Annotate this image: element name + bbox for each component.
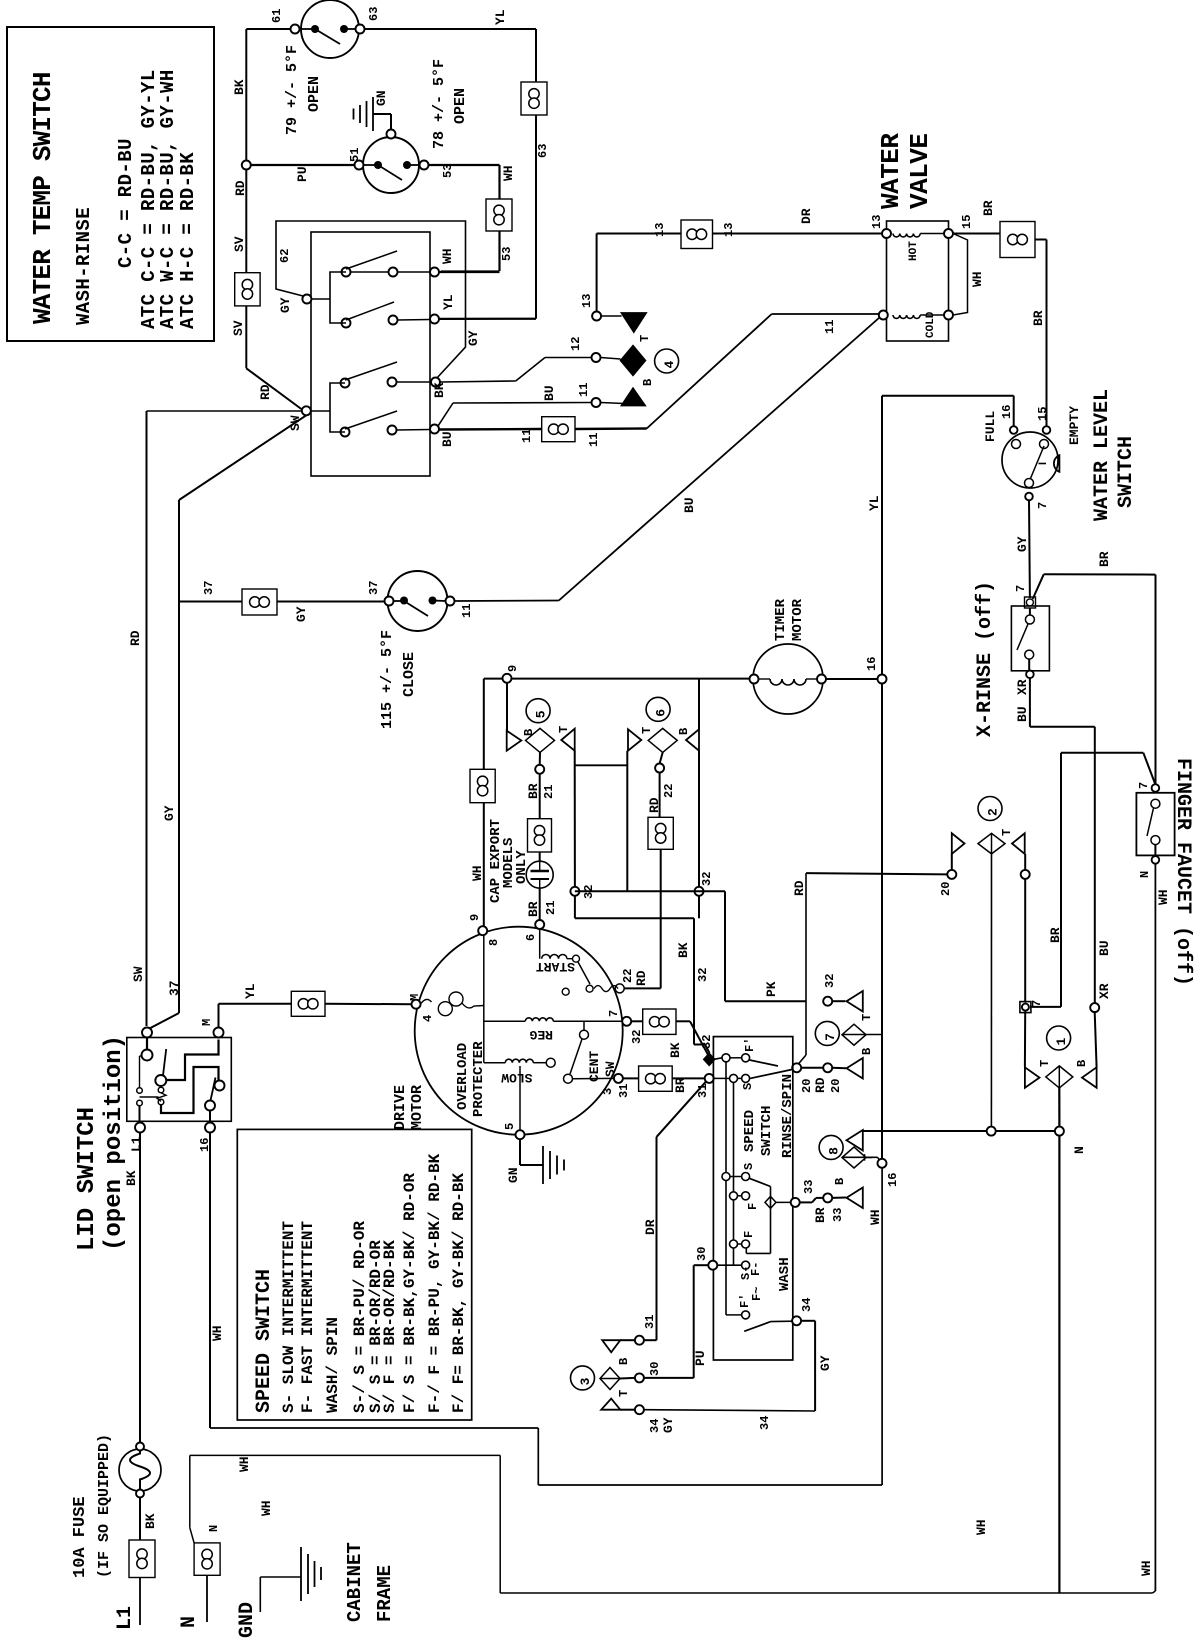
svg-text:BR: BR bbox=[1097, 551, 1112, 567]
wire 12 from BK terminal bbox=[440, 381, 516, 382]
svg-text:COLD: COLD bbox=[925, 311, 937, 338]
svg-text:X-RINSE (off): X-RINSE (off) bbox=[974, 581, 997, 737]
X-RINSE contacts and blade bbox=[1029, 608, 1031, 615]
terminal 33 on box edge bbox=[791, 1198, 800, 1207]
ground GND symbol bbox=[259, 1577, 261, 1612]
N connector bbox=[194, 1543, 220, 1575]
svg-text:BR: BR bbox=[1048, 927, 1063, 943]
terminal 30 stack3 bbox=[635, 1373, 644, 1382]
svg-text:GY: GY bbox=[466, 330, 481, 346]
finger faucet terminal 7 bbox=[1152, 784, 1160, 792]
wire BR from X-RINSE 7 up right bbox=[1033, 574, 1044, 599]
svg-text:37: 37 bbox=[367, 581, 381, 595]
connector on YL right bus bbox=[521, 82, 547, 115]
stack3 bottom triangle bbox=[601, 1399, 620, 1410]
water valve box bbox=[887, 221, 949, 341]
svg-text:RD: RD bbox=[634, 970, 649, 986]
svg-text:T: T bbox=[1038, 1060, 1052, 1067]
wire 34 up to terminal bbox=[814, 1321, 816, 1411]
svg-text:BK: BK bbox=[232, 79, 247, 95]
wire 30 stack3 to speed switch bbox=[620, 1377, 635, 1380]
terminal 15 bbox=[1043, 426, 1051, 434]
svg-text:B: B bbox=[617, 1358, 631, 1365]
wire RD20 tee junction bbox=[823, 997, 832, 1006]
wire stack8 diamond to YL bus junction bbox=[842, 1156, 878, 1158]
svg-text:BU: BU bbox=[1097, 940, 1112, 956]
wire 62 GY outer path bbox=[276, 221, 466, 379]
pole2 terminal YL bbox=[430, 315, 439, 324]
svg-text:WATER LEVEL: WATER LEVEL bbox=[1091, 389, 1114, 521]
wire 32 connector to speed switch bbox=[676, 1020, 690, 1022]
svg-text:WATER TEMP SWITCH: WATER TEMP SWITCH bbox=[28, 72, 58, 324]
water temp switch inner box bbox=[311, 232, 430, 476]
svg-text:RD: RD bbox=[813, 1077, 828, 1093]
svg-text:GND: GND bbox=[236, 1602, 259, 1638]
wire 20 RD to stack7 bottom triangle bbox=[801, 1067, 823, 1069]
terminal 13 bbox=[592, 312, 601, 321]
N wire routing bbox=[190, 1528, 194, 1543]
wire 34 from stack3 to speed switch bbox=[620, 1409, 635, 1411]
pole1 terminal WH bbox=[430, 268, 439, 277]
svg-text:37: 37 bbox=[202, 581, 216, 595]
10A fuse circle bbox=[119, 1449, 161, 1491]
svg-text:SW: SW bbox=[131, 966, 146, 982]
stack4 triangle filled bottom bbox=[622, 388, 645, 405]
wire 12 stub to diamond bbox=[601, 358, 621, 360]
lid link small chain bbox=[140, 1096, 159, 1098]
svg-text:F/ S = BR-BK,GY-BK/ RD-OR: F/ S = BR-BK,GY-BK/ RD-OR bbox=[401, 1173, 419, 1413]
svg-text:F-: F- bbox=[749, 1262, 763, 1276]
svg-text:F: F bbox=[746, 1203, 760, 1210]
svg-text:79 +/- 5°F: 79 +/- 5°F bbox=[284, 45, 301, 135]
X-RINSE box bbox=[1011, 606, 1049, 671]
terminal 7 junction square bbox=[1020, 1002, 1031, 1013]
connector on 21 wire bbox=[528, 819, 552, 852]
wire BR vertical down bbox=[1060, 753, 1062, 1007]
svg-text:SV: SV bbox=[231, 320, 246, 336]
wire DR vertical bbox=[656, 1137, 658, 1340]
wire SV bus to lower common diagonal bbox=[245, 306, 247, 368]
svg-text:WASH/ SPIN: WASH/ SPIN bbox=[324, 1317, 342, 1413]
svg-text:13: 13 bbox=[653, 223, 667, 237]
svg-text:ONLY: ONLY bbox=[514, 850, 530, 884]
wire 22 connector down into motor bbox=[660, 849, 662, 988]
wire to stack7 top triangle bbox=[832, 1000, 845, 1002]
svg-text:11: 11 bbox=[520, 429, 534, 443]
svg-text:6: 6 bbox=[524, 934, 538, 941]
svg-text:T: T bbox=[638, 335, 652, 342]
svg-text:4: 4 bbox=[662, 361, 677, 369]
wire YL connector to motor M bbox=[325, 1003, 412, 1005]
svg-text:15: 15 bbox=[1036, 407, 1050, 421]
svg-text:30: 30 bbox=[648, 1362, 662, 1376]
svg-text:F-/ F = BR-PU, GY-BK/ RD-BK: F-/ F = BR-PU, GY-BK/ RD-BK bbox=[426, 1153, 444, 1413]
svg-text:34: 34 bbox=[648, 1419, 662, 1433]
wire WH from faucet down bbox=[1154, 864, 1156, 1591]
row S rinse bbox=[730, 1074, 738, 1082]
stack6 diamond bbox=[648, 728, 677, 752]
svg-text:N: N bbox=[178, 1616, 201, 1628]
wire cap to motor terminal 6 bbox=[539, 888, 541, 920]
svg-text:B: B bbox=[860, 1048, 874, 1055]
svg-text:T: T bbox=[640, 727, 654, 734]
svg-text:33: 33 bbox=[831, 1208, 845, 1222]
stack4 triangle T filled bbox=[622, 313, 646, 332]
svg-text:PROTECTER: PROTECTER bbox=[471, 1041, 487, 1117]
wire GY 7 down to X-RINSE bbox=[1028, 501, 1031, 599]
svg-text:GY: GY bbox=[162, 805, 177, 821]
wire stack6 right triangle down 32 bbox=[698, 751, 700, 887]
wire DR diagonal from 31 junction bbox=[657, 1082, 707, 1137]
svg-text:61: 61 bbox=[270, 9, 284, 23]
valve COLD coil bbox=[893, 315, 920, 318]
svg-text:30: 30 bbox=[695, 1247, 709, 1261]
svg-text:F/ F= BR-BK, GY-BK/ RD-BK: F/ F= BR-BK, GY-BK/ RD-BK bbox=[450, 1173, 468, 1413]
wire motor7 to connector bbox=[631, 1020, 643, 1022]
stack6 right triangle bbox=[686, 729, 699, 750]
inner bus left bbox=[725, 1058, 727, 1315]
lid center contact circle bbox=[155, 1075, 166, 1086]
svg-text:REG: REG bbox=[529, 1027, 553, 1042]
svg-text:XR: XR bbox=[1015, 679, 1030, 695]
wire 16 WH down bbox=[209, 1133, 211, 1429]
svg-text:31: 31 bbox=[643, 1315, 657, 1329]
svg-text:7: 7 bbox=[1036, 502, 1050, 509]
svg-text:15: 15 bbox=[960, 215, 974, 229]
wire N thick from stack1 diamond down bbox=[1058, 1088, 1060, 1127]
wire XR down to stack1 right triangle bbox=[1095, 1012, 1097, 1067]
pole2 YL: contacts and blade bbox=[342, 319, 351, 328]
pole4 terminal BU bbox=[430, 425, 439, 434]
svg-text:CLOSE: CLOSE bbox=[401, 652, 418, 697]
wire BU from X-RINSE down right bbox=[1029, 678, 1031, 727]
svg-text:WH: WH bbox=[974, 1519, 989, 1535]
wire 16 up and left bbox=[1013, 396, 1015, 426]
svg-text:M: M bbox=[200, 1019, 214, 1026]
svg-text:PU: PU bbox=[295, 166, 310, 182]
wire N to stack8 top triangle bbox=[863, 1130, 1055, 1132]
wire BK from 61 to left bus bbox=[246, 28, 290, 30]
svg-text:YL: YL bbox=[493, 9, 508, 25]
stack7 diamond bbox=[842, 1024, 866, 1045]
circled 4 bbox=[655, 349, 679, 373]
svg-text:RINSE/SPIN: RINSE/SPIN bbox=[780, 1074, 796, 1158]
svg-text:7: 7 bbox=[1137, 782, 1151, 789]
pressure dome bbox=[1054, 455, 1060, 472]
circled 5 bbox=[526, 699, 550, 723]
svg-text:8: 8 bbox=[487, 939, 501, 946]
svg-text:WH: WH bbox=[210, 1325, 225, 1341]
wire 31 junction into box bbox=[714, 1077, 730, 1079]
svg-text:B: B bbox=[833, 1178, 847, 1185]
connector on 22 wire bbox=[648, 817, 673, 849]
lid pole2 contact bbox=[215, 1081, 225, 1091]
motor SLOW branch bbox=[484, 1062, 506, 1064]
svg-text:WH: WH bbox=[868, 1209, 883, 1225]
svg-text:11: 11 bbox=[460, 604, 474, 618]
connector on wire 13 bbox=[681, 220, 713, 249]
svg-text:115 +/- 5°F: 115 +/- 5°F bbox=[379, 630, 396, 729]
junction 16 circle bbox=[878, 1159, 887, 1168]
svg-text:WASH: WASH bbox=[777, 1257, 793, 1291]
motor ground GN bbox=[519, 1139, 521, 1165]
stack8 top triangle bbox=[847, 1130, 863, 1151]
svg-text:20: 20 bbox=[939, 882, 953, 896]
svg-text:EMPTY: EMPTY bbox=[1067, 406, 1082, 445]
stack2 right triangle bbox=[1012, 833, 1025, 854]
svg-text:F: F bbox=[742, 1231, 756, 1238]
START blade bbox=[578, 962, 590, 984]
stack7 bottom triangle bbox=[847, 1058, 863, 1079]
svg-text:12: 12 bbox=[569, 337, 583, 351]
svg-text:33: 33 bbox=[802, 1180, 816, 1194]
junction 31 at speed switch bbox=[705, 1074, 714, 1083]
finger faucet box bbox=[1136, 793, 1174, 856]
svg-text:BR: BR bbox=[526, 901, 541, 917]
wire 7 junction down to stack1 left triangle bbox=[1024, 1011, 1026, 1067]
valve COLD terminal right bbox=[944, 311, 953, 320]
lid switch terminal SW 37 bbox=[142, 1028, 152, 1038]
row S wash bbox=[722, 1173, 730, 1181]
row F prime F~ wash bottom bbox=[742, 1311, 750, 1319]
wire WH faucet corner bbox=[1153, 1591, 1156, 1593]
junction 9 bbox=[503, 674, 512, 683]
svg-text:S: S bbox=[742, 1163, 756, 1170]
svg-text:5: 5 bbox=[503, 1123, 517, 1130]
circled 2 bbox=[978, 797, 1002, 821]
svg-text:13: 13 bbox=[722, 223, 736, 237]
wire YL from 63 to right bus bbox=[365, 28, 537, 30]
water level switch blade bbox=[1029, 446, 1044, 482]
svg-text:B: B bbox=[1075, 1060, 1089, 1067]
svg-text:PU: PU bbox=[693, 1350, 708, 1366]
row F wash bbox=[730, 1192, 738, 1200]
svg-text:DRIVE: DRIVE bbox=[392, 1085, 409, 1130]
svg-text:31: 31 bbox=[617, 1084, 631, 1098]
svg-text:BK: BK bbox=[676, 942, 691, 958]
svg-text:T: T bbox=[1000, 829, 1014, 836]
svg-text:78 +/- 5°F: 78 +/- 5°F bbox=[431, 59, 448, 149]
wire WH terminal to 53 bbox=[439, 271, 500, 273]
svg-text:RD: RD bbox=[128, 630, 143, 646]
svg-text:M: M bbox=[408, 994, 422, 1001]
svg-text:B: B bbox=[677, 728, 691, 735]
svg-text:22: 22 bbox=[621, 969, 635, 983]
svg-text:63: 63 bbox=[536, 144, 550, 158]
wire RD bus down from 51 junction bbox=[245, 170, 247, 273]
svg-text:8: 8 bbox=[827, 1147, 842, 1155]
svg-text:ATC H-C = RD-BK: ATC H-C = RD-BK bbox=[177, 152, 199, 329]
svg-text:F- FAST INTERMITTENT: F- FAST INTERMITTENT bbox=[299, 1221, 317, 1413]
svg-text:10A FUSE: 10A FUSE bbox=[71, 1496, 90, 1578]
svg-text:WASH-RINSE: WASH-RINSE bbox=[73, 207, 95, 325]
circled 1 bbox=[1047, 1026, 1071, 1050]
wire RD down left side to lid switch bbox=[146, 411, 148, 1026]
svg-text:21: 21 bbox=[542, 785, 556, 799]
start switch contacts bbox=[586, 985, 593, 992]
svg-text:GY: GY bbox=[1015, 536, 1030, 552]
svg-text:5: 5 bbox=[534, 710, 549, 718]
svg-text:OPEN: OPEN bbox=[306, 76, 323, 112]
capacitor circle CAP bbox=[526, 861, 553, 888]
motor internal vertical bus bbox=[483, 935, 485, 1062]
svg-text:BU: BU bbox=[440, 431, 455, 447]
junction diamond 32 at speed switch bbox=[704, 1053, 715, 1065]
svg-text:32: 32 bbox=[700, 1035, 714, 1049]
svg-text:YL: YL bbox=[867, 495, 882, 511]
row F wash2 bbox=[730, 1240, 738, 1248]
svg-text:WH: WH bbox=[237, 1456, 252, 1472]
svg-text:CENT: CENT bbox=[587, 1051, 602, 1082]
inner bus right bbox=[733, 1078, 735, 1265]
wash common diamond 33 bbox=[765, 1196, 776, 1208]
wire 9 horizontal bbox=[484, 678, 750, 680]
lid switch bottom terminal L1 bbox=[135, 1123, 145, 1133]
wire 32 BK vertical from above bbox=[698, 896, 700, 919]
svg-text:11: 11 bbox=[587, 433, 601, 447]
svg-text:HOT: HOT bbox=[908, 241, 920, 261]
wire stack6 diamond down 22 RD bbox=[660, 752, 663, 763]
ground GN thermostat bbox=[372, 97, 374, 131]
motor terminal 6 and cap wire bbox=[535, 920, 544, 929]
svg-text:GN: GN bbox=[506, 1167, 521, 1183]
svg-text:BR: BR bbox=[813, 1207, 828, 1223]
svg-text:YL: YL bbox=[243, 983, 258, 999]
svg-text:T: T bbox=[617, 1390, 631, 1397]
wire stack6 left triangle down bbox=[626, 751, 628, 892]
svg-text:BK: BK bbox=[143, 1513, 158, 1529]
svg-text:MOTOR: MOTOR bbox=[409, 1085, 426, 1130]
svg-text:2: 2 bbox=[986, 808, 1001, 816]
svg-text:SV: SV bbox=[232, 236, 247, 252]
wash common bottom hook bbox=[746, 1252, 770, 1254]
wire 11 connector to diagonal bbox=[575, 427, 647, 430]
lid thick path M to center bbox=[167, 1040, 219, 1081]
svg-text:22: 22 bbox=[662, 784, 676, 798]
timer motor terminals bbox=[750, 675, 759, 684]
wire 9 down to stack5 left triangle bbox=[506, 683, 508, 731]
stack7 top triangle bbox=[847, 991, 863, 1012]
svg-text:GY: GY bbox=[818, 1355, 833, 1371]
stack5 right triangle bbox=[561, 729, 574, 751]
terminal 51 bbox=[355, 161, 364, 170]
lid center small contacts bbox=[158, 1087, 164, 1093]
svg-text:BR: BR bbox=[981, 200, 996, 216]
wire RD left from lower common bbox=[147, 410, 302, 412]
svg-text:7: 7 bbox=[1030, 1000, 1044, 1007]
timer motor coil bbox=[770, 679, 806, 685]
row F prime rinse bbox=[715, 1058, 723, 1059]
wire stack5 right triangle down 32 bbox=[574, 751, 576, 887]
wire BR bottom jog to 7 junction bbox=[1030, 1006, 1061, 1008]
wire 37 diagonal into lid switch bbox=[149, 1013, 180, 1029]
thermostat 78F OPEN bbox=[363, 137, 419, 193]
wire 37 horizontal to thermostat 115 bbox=[179, 601, 242, 603]
svg-text:32: 32 bbox=[696, 968, 710, 982]
terminal 37 left bbox=[385, 597, 394, 606]
YL bus vertical bbox=[881, 396, 883, 675]
svg-text:SWITCH: SWITCH bbox=[759, 1106, 775, 1156]
wire N end bbox=[206, 1575, 208, 1622]
speed switch box bbox=[713, 1037, 792, 1360]
terminal 31 stack3 bbox=[635, 1336, 644, 1345]
tee down to stack6 right triangle bbox=[698, 679, 700, 730]
stack5 left triangle bbox=[507, 731, 522, 751]
faucet bottom terminal N bbox=[1152, 856, 1160, 864]
svg-text:GY: GY bbox=[278, 297, 293, 313]
svg-text:S: S bbox=[741, 1083, 755, 1090]
wire BK L1 down to fuse bbox=[139, 1133, 141, 1443]
thermostat 115F CLOSE bbox=[388, 571, 448, 631]
svg-text:T: T bbox=[557, 726, 571, 733]
svg-text:3: 3 bbox=[578, 1377, 593, 1385]
svg-text:37: 37 bbox=[167, 980, 182, 996]
svg-text:T: T bbox=[862, 1154, 876, 1161]
terminal 61 bbox=[291, 25, 300, 34]
svg-text:21: 21 bbox=[544, 901, 558, 915]
svg-text:63: 63 bbox=[367, 7, 381, 21]
connector on 53 wire bbox=[486, 199, 512, 231]
svg-text:ATC W-C = RD-BU, GY-WH: ATC W-C = RD-BU, GY-WH bbox=[157, 69, 179, 329]
wire 21 connector to capacitor bbox=[539, 852, 541, 861]
connector on 15 wire bbox=[1000, 222, 1035, 258]
svg-text:FRAME: FRAME bbox=[374, 1565, 396, 1622]
WH wire 16 routing bbox=[210, 1427, 538, 1429]
valve COLD terminal left 11 bbox=[879, 311, 888, 320]
wire 37 vertical bbox=[178, 500, 180, 1013]
svg-text:WH: WH bbox=[1139, 1560, 1154, 1576]
stack5 diamond bbox=[526, 728, 555, 752]
svg-text:WH: WH bbox=[970, 271, 985, 287]
wire BR horizontal to faucet bbox=[1061, 752, 1143, 754]
X-RINSE bottom terminal bbox=[1026, 671, 1034, 679]
svg-text:32: 32 bbox=[700, 872, 714, 886]
svg-text:BK: BK bbox=[432, 382, 447, 398]
svg-text:RD: RD bbox=[258, 384, 273, 400]
terminal XR bottom bbox=[1090, 1003, 1099, 1012]
circled 7 bbox=[815, 1021, 839, 1045]
svg-text:START: START bbox=[536, 959, 575, 974]
svg-text:GN: GN bbox=[374, 90, 389, 106]
wire YL right bus to YL terminal bbox=[535, 115, 537, 319]
wire 13 stub to triangle bbox=[601, 315, 622, 317]
stack3 diamond bbox=[600, 1368, 620, 1390]
lid thick path 2 bbox=[161, 1067, 219, 1113]
svg-text:16: 16 bbox=[1000, 405, 1014, 419]
lid pole1 contact bbox=[146, 1038, 148, 1050]
stack2 diamond bbox=[978, 833, 1005, 854]
wire BR down right side bbox=[1035, 239, 1047, 241]
svg-text:TIMER: TIMER bbox=[773, 598, 789, 641]
svg-text:VALVE: VALVE bbox=[905, 133, 935, 209]
svg-text:N: N bbox=[1072, 1146, 1087, 1154]
wire 31 stack3 bbox=[620, 1339, 635, 1341]
blade F~ to 34 bbox=[744, 1322, 771, 1332]
circled 6 bbox=[646, 697, 670, 721]
wire stack7 diamond to YL bus bbox=[842, 1034, 882, 1036]
circled 8 bbox=[819, 1135, 843, 1159]
speed switch legend box bbox=[237, 1129, 471, 1420]
connector on 37 wire bbox=[242, 589, 277, 615]
svg-text:SPEED SWITCH: SPEED SWITCH bbox=[253, 1269, 276, 1413]
wire 37 connector to thermostat bbox=[277, 601, 385, 603]
lid switch box bbox=[127, 1038, 232, 1122]
lid center blade bbox=[163, 1049, 166, 1076]
svg-text:F~: F~ bbox=[750, 1287, 764, 1301]
motor internal START branch bbox=[539, 929, 541, 959]
svg-text:FULL: FULL bbox=[983, 411, 998, 442]
svg-text:T: T bbox=[860, 1014, 874, 1021]
